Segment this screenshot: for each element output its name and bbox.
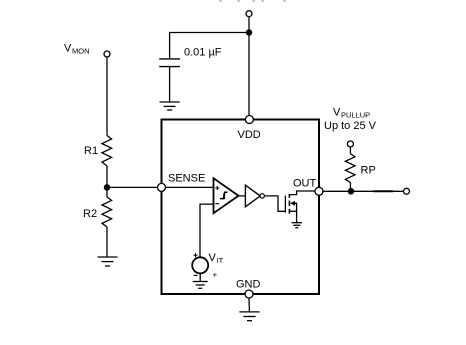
node output terminal xyxy=(404,188,410,194)
label VPULLUP xyxy=(333,107,370,120)
wire junction to capacitor xyxy=(170,33,249,59)
inverter output bubble xyxy=(260,194,264,198)
label VDD xyxy=(238,129,261,141)
label RP xyxy=(361,165,376,177)
svg-text:GND: GND xyxy=(236,279,261,291)
svg-text:OUT: OUT xyxy=(293,178,317,190)
comparator plus input mark xyxy=(215,186,219,190)
label VIT xyxy=(209,252,224,280)
IC box outline xyxy=(162,120,320,295)
wire SENSE pin to comparator + input xyxy=(166,186,214,188)
node VDD top terminal xyxy=(246,11,252,17)
label VMON xyxy=(64,43,90,56)
svg-text:+: + xyxy=(213,271,218,280)
VIT minus mark xyxy=(194,274,198,276)
wire RP to OUT line xyxy=(349,183,351,192)
op-amp comparator U1 xyxy=(214,178,239,213)
node VMON terminal xyxy=(104,51,110,57)
transistor Q1 body/source wires xyxy=(295,203,297,222)
label Up to 25 V xyxy=(324,120,377,132)
wire VMON terminal to R1 xyxy=(106,57,108,136)
svg-text:V: V xyxy=(209,252,217,264)
transistor Q1 drain wire to OUT xyxy=(289,191,315,195)
cropped text remnants top edge xyxy=(219,0,286,2)
svg-text:V: V xyxy=(333,107,341,119)
svg-text:R1: R1 xyxy=(84,145,98,157)
ground below MOSFET source xyxy=(292,223,302,228)
label R1 xyxy=(84,145,98,157)
svg-text:IT: IT xyxy=(217,256,224,265)
svg-text:RP: RP xyxy=(361,165,376,177)
wire VDD terminal down to VDD pin xyxy=(248,17,250,116)
svg-text:PULLUP: PULLUP xyxy=(341,111,370,120)
resistor RP xyxy=(345,154,355,183)
wire OUT pin to output terminal xyxy=(319,190,404,192)
node junction RP/OUT xyxy=(348,189,353,194)
pin GND circle xyxy=(245,290,253,298)
wire capacitor to ground xyxy=(169,67,171,102)
ground below capacitor xyxy=(160,102,180,110)
wire buffer bubble to MOSFET gate xyxy=(264,196,285,211)
capacitor C1 0.01uF xyxy=(159,59,180,67)
pin OUT circle xyxy=(315,187,323,195)
transistor Q1 channel segments xyxy=(288,194,290,214)
resistor R2 xyxy=(102,197,112,227)
label 0.01 uF xyxy=(184,47,222,59)
wire GND pin to ground xyxy=(248,298,250,312)
ground below GND pin xyxy=(239,312,259,321)
svg-text:SENSE: SENSE xyxy=(168,173,205,185)
transistor Q1 body arrow xyxy=(290,201,295,206)
wire comparator output to buffer xyxy=(239,195,246,197)
label R2 xyxy=(83,208,97,220)
VIT plus mark xyxy=(194,253,198,257)
svg-text:V: V xyxy=(64,43,72,55)
node junction R1/R2/SENSE xyxy=(104,185,109,190)
resistor R1 xyxy=(102,136,112,167)
svg-text:MON: MON xyxy=(72,47,90,56)
wire thick overlay segment xyxy=(374,190,394,192)
wire VPULLUP terminal to RP xyxy=(349,147,351,154)
transistor Q1 NMOS gate bar xyxy=(284,196,286,213)
node junction capacitor tap xyxy=(246,30,251,35)
wire VIT to ground xyxy=(199,273,201,281)
voltage source VIT xyxy=(192,257,208,273)
comparator minus input mark xyxy=(215,203,219,205)
svg-text:Up to 25 V: Up to 25 V xyxy=(324,120,377,132)
label OUT xyxy=(293,178,317,190)
wire R2 to ground xyxy=(106,227,108,257)
wire R1 to junction xyxy=(106,166,108,197)
ground below R2 xyxy=(98,257,118,266)
comparator hysteresis symbol xyxy=(220,192,228,198)
svg-text:VDD: VDD xyxy=(238,129,261,141)
label SENSE xyxy=(168,173,205,185)
svg-text:R2: R2 xyxy=(83,208,97,220)
pin VDD circle xyxy=(245,116,253,124)
wire comparator - input to VIT xyxy=(200,204,214,257)
inverter buffer U2 xyxy=(245,185,260,207)
ground below VIT xyxy=(193,282,208,289)
label GND xyxy=(236,279,261,291)
wire junction to SENSE pin xyxy=(107,186,158,188)
node VPULLUP terminal xyxy=(347,141,353,147)
svg-text:0.01 µF: 0.01 µF xyxy=(184,47,222,59)
pin SENSE circle xyxy=(158,183,166,191)
